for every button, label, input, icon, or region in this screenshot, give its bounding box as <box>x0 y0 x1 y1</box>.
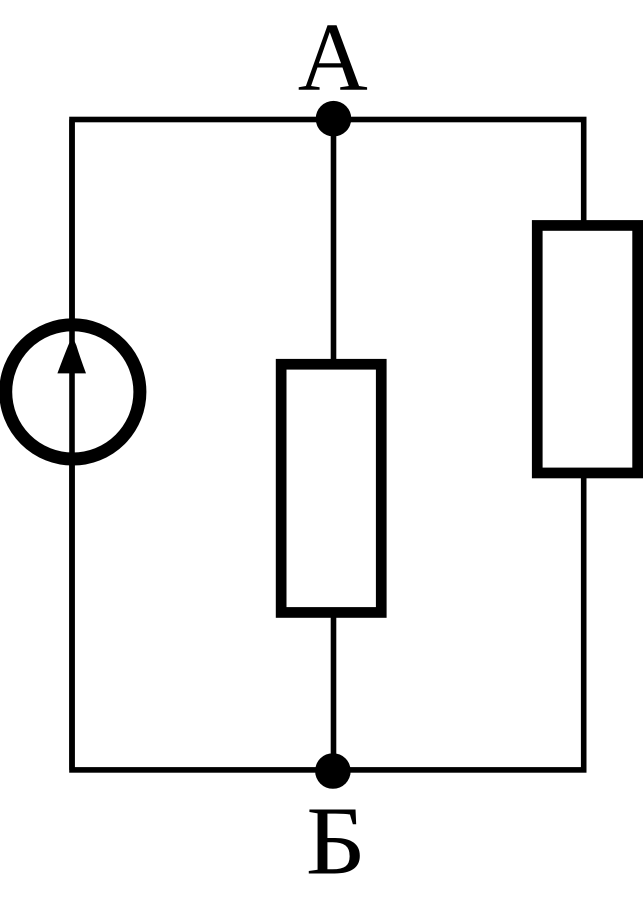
svg-text:Б: Б <box>306 787 366 895</box>
svg-text:А: А <box>298 4 368 111</box>
